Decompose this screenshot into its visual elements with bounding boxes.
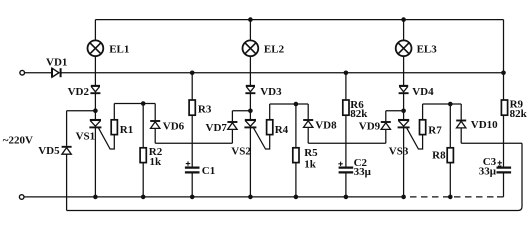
svg-text:R4: R4 — [275, 124, 289, 136]
svg-text:R3: R3 — [198, 103, 212, 115]
svg-text:R5: R5 — [304, 147, 318, 159]
svg-text:VD5: VD5 — [38, 145, 60, 157]
svg-text:VD6: VD6 — [163, 121, 185, 133]
svg-text:VD3: VD3 — [260, 86, 282, 98]
svg-text:VD10: VD10 — [471, 119, 498, 131]
svg-text:R1: R1 — [120, 124, 133, 136]
svg-text:R8: R8 — [432, 149, 446, 161]
svg-text:VD7: VD7 — [206, 122, 228, 134]
svg-text:C1: C1 — [202, 165, 215, 177]
svg-text:VD2: VD2 — [68, 86, 90, 98]
svg-text:EL2: EL2 — [264, 43, 285, 55]
svg-text:VD8: VD8 — [315, 120, 337, 132]
svg-text:VS3: VS3 — [389, 145, 409, 157]
svg-text:33μ: 33μ — [354, 166, 372, 178]
svg-text:VD1: VD1 — [46, 56, 67, 68]
svg-text:VD4: VD4 — [412, 86, 434, 98]
svg-text:82k: 82k — [350, 108, 368, 120]
svg-text:VD9: VD9 — [359, 121, 381, 133]
svg-text:R7: R7 — [428, 124, 442, 136]
svg-text:~220V: ~220V — [3, 134, 33, 146]
svg-text:33μ: 33μ — [479, 166, 497, 178]
svg-text:82k: 82k — [510, 108, 528, 120]
svg-text:1k: 1k — [304, 159, 317, 171]
svg-text:EL1: EL1 — [109, 43, 129, 55]
svg-text:VS1: VS1 — [76, 131, 96, 143]
svg-text:EL3: EL3 — [417, 43, 438, 55]
svg-text:VS2: VS2 — [231, 146, 251, 158]
svg-text:1k: 1k — [150, 156, 163, 168]
